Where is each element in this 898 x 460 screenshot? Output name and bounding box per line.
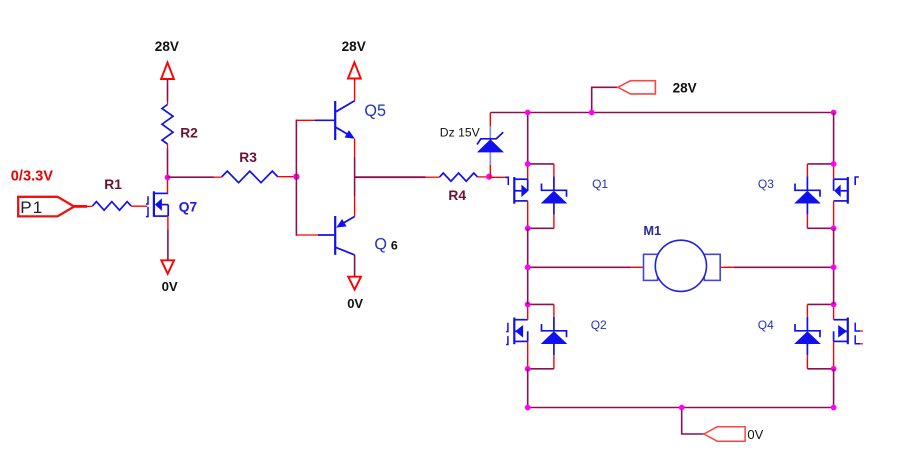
body diode of Q2 (528, 304, 568, 368)
body diode of Q3 (794, 164, 833, 228)
wire R2 to node A (167, 149, 169, 177)
port 0V (704, 427, 764, 442)
transistor Q1 (505, 164, 608, 228)
wire 28V arrow to R2 (167, 80, 169, 102)
svg-text:Q5: Q5 (364, 102, 386, 120)
transistor Q3 (758, 164, 859, 228)
node top-left rail junction (525, 110, 531, 116)
wire right rail middle (833, 228, 835, 304)
zener diode Dz 15V (440, 113, 504, 177)
wire R4 to node C (478, 176, 490, 178)
svg-text:R1: R1 (104, 177, 122, 192)
power 28V (above R2) (155, 39, 179, 79)
resistor R3 (222, 150, 278, 183)
node Q4 source junction (831, 366, 837, 372)
svg-text:28V: 28V (673, 80, 697, 95)
transistor Q4 (758, 304, 863, 368)
svg-text:28V: 28V (155, 39, 179, 54)
svg-text:Q4: Q4 (758, 318, 774, 332)
resistor R4 (426, 173, 478, 203)
svg-text:0/3.3V: 0/3.3V (11, 168, 53, 184)
svg-text:0V: 0V (747, 427, 763, 442)
wire motor to right rail (720, 266, 733, 268)
svg-text:R2: R2 (180, 125, 198, 140)
node Q1 source junction (525, 225, 531, 231)
node A junction (Q7 drain / R2 / R3) (165, 175, 171, 181)
node motor left junction (525, 264, 531, 270)
wire 0V port stem (682, 408, 704, 435)
wire left rail top (527, 113, 529, 164)
svg-text:R4: R4 (448, 188, 466, 203)
wire Q5 emitter to output (354, 139, 356, 157)
wire top rail 28V (490, 112, 833, 114)
wire node B to Q6 base (296, 234, 318, 236)
wire R1 to Q7 gate (131, 205, 147, 207)
svg-text:Q7: Q7 (179, 199, 198, 214)
wire Q6 emitter (354, 196, 356, 217)
wire bottom rail 0V (528, 407, 834, 409)
body diode of Q1 (528, 164, 568, 228)
node Q4 drain junction (831, 302, 837, 308)
resistor R1 (93, 177, 132, 210)
svg-text:6: 6 (391, 238, 398, 252)
node Q3 drain junction (831, 161, 837, 167)
wire R3 to node B (278, 176, 294, 178)
wire right rail bottom (833, 369, 835, 408)
node 28V port junction (589, 110, 595, 116)
node 0V port junction (679, 405, 685, 411)
svg-text:M1: M1 (643, 223, 661, 238)
node top-right corner (831, 110, 837, 116)
transistor Q5 (335, 80, 386, 141)
transistor Q2 (506, 304, 607, 368)
wire Q6 collector to 0V (354, 255, 356, 276)
svg-text:Dz 15V: Dz 15V (440, 126, 481, 140)
wire node C to Q1 gate (489, 176, 505, 178)
svg-text:0V: 0V (347, 296, 363, 311)
svg-text:28V: 28V (342, 39, 366, 54)
motor M1 (643, 223, 720, 291)
node B junction (R3 / Q5 Q6 bases) (293, 174, 299, 180)
transistor Q7 (146, 177, 198, 229)
resistor R2 (162, 102, 198, 149)
svg-text:Q1: Q1 (592, 177, 608, 191)
node Q2 drain junction (525, 302, 531, 308)
port 28V (618, 80, 697, 95)
node Q1 drain junction (525, 161, 531, 167)
node motor right junction (831, 264, 837, 270)
svg-text:R3: R3 (239, 150, 257, 165)
wire left rail to motor (528, 266, 631, 268)
wire 28V port stem (592, 87, 618, 112)
node bottom-left corner (525, 405, 531, 411)
transistor Q6 (335, 216, 398, 255)
wire output to R4 (355, 176, 426, 178)
svg-text:Q: Q (374, 235, 387, 253)
port P1 (18, 197, 74, 217)
svg-text:Q3: Q3 (758, 177, 774, 191)
node Q3 source junction (831, 225, 837, 231)
power 28V (above Q5) (342, 39, 366, 78)
wire node B to Q5 base (296, 119, 315, 121)
wire right rail top (833, 113, 835, 164)
node C junction (R4 / zener / Q1 gate) (486, 174, 492, 180)
wire base bus vertical (295, 120, 297, 236)
wire left rail middle (527, 228, 529, 304)
svg-text:Q2: Q2 (591, 318, 607, 332)
svg-text:P1: P1 (20, 198, 43, 217)
wire Q7 source to 0V (167, 230, 169, 260)
node Q2 source junction (525, 366, 531, 372)
node bottom-right corner (831, 405, 837, 411)
svg-text:0V: 0V (162, 279, 178, 294)
ground 0V (below Q7) (161, 260, 178, 294)
ground 0V (below Q6) (347, 277, 363, 311)
wire left rail bottom (527, 369, 529, 408)
wire P1 to R1 (74, 205, 87, 208)
wire node A to R3 (168, 176, 214, 178)
body diode of Q4 (794, 304, 833, 368)
